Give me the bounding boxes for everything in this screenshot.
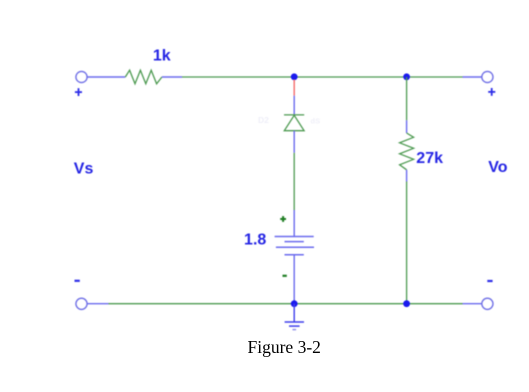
svg-text:Vs: Vs: [74, 161, 94, 178]
battery V1 minus polarity mark: [283, 275, 287, 277]
ground stub below node C: [293, 304, 295, 322]
node B junction dot top-right: [403, 73, 410, 80]
label + at top-left terminal: [75, 88, 82, 96]
wire: battery V1 top pin (periwinkle): [293, 210, 295, 237]
wire: diode D1 top pin (periwinkle): [293, 96, 295, 115]
diode D1 triangle: [284, 115, 304, 130]
terminal top-left: [76, 71, 87, 82]
svg-text:dS: dS: [311, 117, 321, 126]
terminal bottom-right: [482, 298, 493, 309]
ground symbol line 1: [285, 321, 304, 323]
wire: top horizontal green wire R1 to node A: [182, 76, 294, 78]
diode D1 cathode bar: [284, 114, 304, 116]
svg-text:D2: D2: [258, 115, 269, 125]
wire top: left pin of R1 (periwinkle): [87, 76, 125, 78]
wire: green vertical wire diode to battery V1: [293, 153, 295, 210]
node D junction dot bottom-right: [403, 300, 410, 307]
battery V1 plus polarity mark: [280, 216, 286, 222]
ground symbol line 3: [293, 329, 297, 331]
label - at bottom-right terminal: [487, 280, 492, 282]
terminal top-right: [482, 71, 493, 82]
battery V1 plate short bottom: [285, 254, 304, 256]
wire: right pin of R1 (periwinkle): [162, 76, 182, 78]
wire: bottom right terminal pin (periwinkle): [463, 303, 483, 305]
ground symbol line 2: [289, 325, 300, 327]
wire: top right terminal pin (periwinkle): [463, 76, 483, 78]
terminal bottom-left: [76, 298, 87, 309]
resistor R1 1k zigzag: [125, 70, 162, 84]
wire: top horizontal green wire node A to node B: [294, 76, 407, 78]
wire: green vertical R2 to node D: [406, 182, 408, 304]
caption Figure 3-2: [248, 337, 321, 358]
wire: bottom horizontal green wire to node C: [109, 303, 295, 305]
svg-text:27k: 27k: [416, 150, 443, 167]
wire: bottom horizontal green wire node C to node D: [294, 303, 407, 305]
wire: battery V1 bottom pin (periwinkle) to node C: [293, 255, 295, 304]
wire: top horizontal green wire node B to right terminal: [407, 76, 463, 78]
wire: resistor R2 bottom pin (periwinkle): [406, 170, 408, 182]
wire: red segment below node A: [293, 80, 295, 96]
svg-text:1.8: 1.8: [244, 232, 266, 249]
battery V1 plate short upper: [285, 241, 304, 243]
svg-text:1k: 1k: [153, 48, 171, 65]
label - at bottom-left terminal: [75, 280, 80, 282]
node A junction dot top-center: [291, 73, 298, 80]
node C junction dot bottom-center: [291, 300, 298, 307]
wire: bottom left terminal pin (periwinkle): [87, 303, 109, 305]
label + at top-right terminal: [488, 88, 495, 96]
battery V1 plate long lower: [276, 246, 314, 248]
resistor R2 27k zigzag: [400, 133, 414, 170]
battery V1 plate long top: [275, 236, 314, 238]
svg-text:Vo: Vo: [488, 159, 507, 176]
wire: green vertical node B down to R2: [406, 77, 408, 120]
wire: resistor R2 top pin (periwinkle): [406, 120, 408, 133]
wire: diode D1 bottom pin (periwinkle): [293, 131, 295, 153]
wire: bottom horizontal green wire node D to right: [407, 303, 463, 305]
